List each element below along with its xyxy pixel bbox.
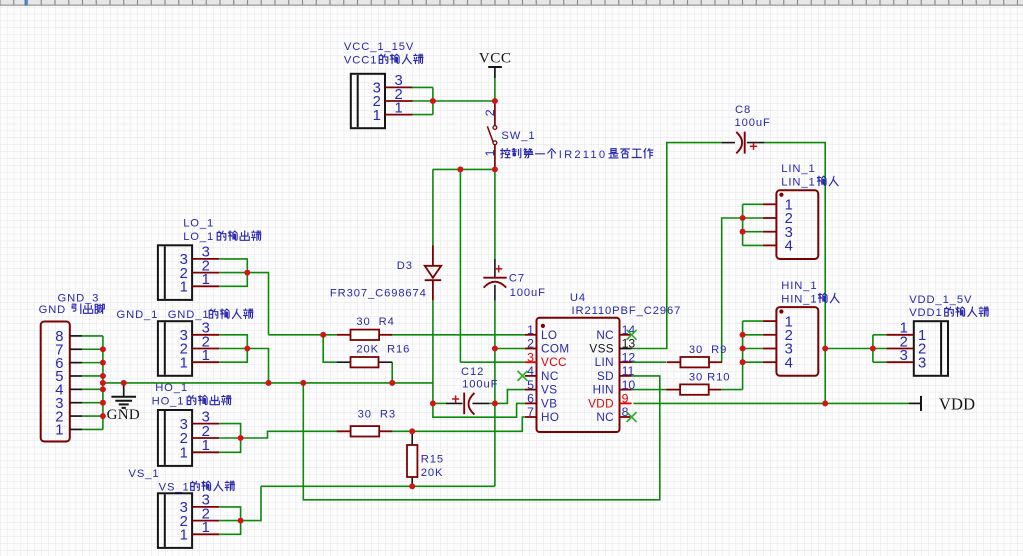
label HIN_1 input: [781, 293, 839, 305]
wire GND_1 pin1 to bus: [220, 349, 248, 363]
junction C12 right: [492, 401, 498, 407]
svg-text:1: 1: [55, 423, 63, 439]
svg-text:LIN: LIN: [595, 356, 614, 369]
svg-text:30 R4: 30 R4: [356, 316, 394, 328]
svg-text:C12: C12: [461, 366, 484, 378]
wire HO_1 pin3 to bus: [220, 424, 241, 438]
svg-text:HO: HO: [541, 411, 559, 424]
junction HO_1 bus: [238, 435, 244, 441]
junction dots layer: [100, 98, 876, 523]
resistor R15 (20K, vertical): [407, 431, 417, 486]
label HO_1 output terminal: [152, 395, 231, 407]
svg-text:3: 3: [900, 348, 908, 364]
wire HO_1 pin1 to bus: [220, 438, 241, 452]
wire R4 row right to U4 LO pin1: [390, 334, 525, 336]
junction R15 bottom at VS net: [409, 483, 415, 489]
junction GND_3 bus: [100, 400, 106, 406]
label VCC1 input terminal: [344, 54, 423, 66]
svg-text:COM: COM: [541, 343, 569, 356]
junction R4 left branch: [320, 332, 326, 338]
op-amp driver U4 IR2110PBF body: [537, 318, 620, 432]
wire LIN_1 pin link: [743, 231, 763, 233]
svg-text:VCC_1_15V: VCC_1_15V: [344, 41, 414, 53]
wire LIN_1 pin link: [743, 203, 763, 205]
switch SW_1: [483, 104, 497, 167]
wire VCC_1 bus vertical: [432, 87, 434, 114]
junction ground rail at GND_3 bus: [100, 380, 106, 386]
U4 left pin 7 HO: [525, 405, 559, 424]
wire C8 right to VDD drop: [764, 143, 825, 404]
svg-text:4: 4: [785, 355, 793, 371]
wire GND_1 pin2 to ground rail: [220, 349, 269, 383]
U4 right pin 14 NC: [596, 323, 635, 342]
junction VDD drop at VDD_1 row: [822, 346, 828, 352]
svg-text:20K: 20K: [421, 467, 444, 479]
svg-text:VDD: VDD: [939, 395, 975, 414]
wire VDD_1 bus vertical: [872, 335, 874, 362]
wire VS_1 pin1 to bus: [220, 521, 241, 535]
svg-text:14: 14: [622, 323, 636, 337]
wire VS_1 pin2 link: [220, 520, 241, 522]
wire VCC_1 pin3 to bus: [411, 86, 433, 88]
svg-text:LO: LO: [541, 329, 557, 342]
U4 left pin 2 COM: [525, 337, 570, 356]
svg-text:7: 7: [527, 405, 534, 419]
svg-text:11: 11: [622, 364, 635, 378]
wire GND_3 pin2 link: [82, 415, 103, 417]
svg-text:1: 1: [202, 348, 210, 364]
svg-text:VB: VB: [541, 397, 557, 410]
junction VCC node: [492, 98, 498, 104]
U4 right pin 11 SD: [597, 364, 635, 383]
resistor R10 (30): [666, 384, 721, 394]
svg-text:1: 1: [180, 528, 188, 544]
junction GND_3 bus: [100, 346, 106, 352]
wire to D3 anode: [432, 169, 434, 245]
svg-text:GND: GND: [39, 304, 67, 316]
power flag VDD: [909, 395, 976, 414]
svg-text:VDD1: VDD1: [909, 307, 942, 319]
svg-text:C8: C8: [735, 104, 751, 116]
svg-text:GND_1: GND_1: [117, 309, 159, 321]
svg-text:2: 2: [527, 337, 534, 351]
svg-text:IR2110: IR2110: [559, 149, 607, 161]
wire U4 VSS pin13 up to C8 left: [632, 143, 722, 349]
wire GND_3 pin5 link: [82, 375, 103, 377]
wire GND_3 bus vertical: [102, 336, 104, 430]
wire GND_3 pin7 link: [82, 348, 103, 350]
wire R4 row left: [269, 334, 337, 336]
wire LO_1 pin1 to bus: [220, 273, 248, 287]
junction ground symbol tap: [121, 380, 127, 386]
wire COM row to U4 pin2: [495, 348, 525, 350]
junction COM node: [492, 346, 498, 352]
svg-text:HIN: HIN: [593, 384, 614, 397]
U4 left pin 1 LO: [525, 323, 558, 342]
wire HIN_1 bus vertical: [742, 321, 744, 390]
wire LO_1 pin2 to R4 row: [220, 273, 269, 335]
wire GND_3 pin6 link: [82, 362, 103, 364]
svg-text:HO_1: HO_1: [155, 382, 188, 394]
junction GND_3 bus: [100, 373, 106, 379]
svg-text:100uF: 100uF: [462, 379, 498, 391]
wire C12 left detour to U4 VB pin6: [433, 403, 525, 417]
wire C12 right down to VS net: [494, 403, 496, 486]
wire VDD_1 pin2 to VDD drop: [825, 348, 886, 350]
svg-text:1: 1: [180, 446, 188, 462]
svg-text:GND: GND: [107, 407, 140, 423]
svg-text:3: 3: [527, 350, 534, 364]
wire R3 right to U4 HO pin7: [391, 417, 525, 431]
svg-text:U4: U4: [570, 292, 586, 304]
svg-text:R15: R15: [421, 453, 444, 465]
wire HO_1 pin2 to R3: [220, 431, 343, 438]
svg-text:VS_1: VS_1: [159, 481, 190, 493]
wire U4 VCC pin3 row: [460, 361, 525, 363]
junction VDD_1 bus: [870, 346, 876, 352]
svg-text:LIN_1: LIN_1: [781, 176, 815, 188]
wire switch output row: [433, 168, 495, 170]
svg-text:NC: NC: [541, 370, 559, 383]
connector LO_1: [158, 245, 220, 300]
svg-text:NC: NC: [596, 411, 614, 424]
wire R9 right up to LIN_1: [722, 218, 743, 362]
svg-text:30 R10: 30 R10: [689, 371, 730, 383]
wire D3 cathode to C12 left: [432, 300, 434, 403]
wire LO_1 pin3 to bus: [220, 259, 248, 273]
svg-text:SW_1: SW_1: [501, 130, 535, 142]
wire R10 right to HIN_1 bus: [722, 389, 743, 391]
svg-text:VS_1: VS_1: [129, 468, 160, 480]
svg-text:100uF: 100uF: [510, 287, 546, 299]
svg-text:9: 9: [622, 392, 629, 406]
svg-text:VDD: VDD: [588, 397, 614, 410]
junction SD return at ground rail: [300, 380, 306, 386]
U4 right pin 8 NC: [596, 405, 631, 424]
svg-text:1: 1: [202, 520, 210, 536]
no-connect X at U4 pin 14: [627, 330, 637, 340]
wire LIN_1 pin link: [743, 244, 763, 246]
label VDD1 input terminal: [909, 307, 988, 319]
svg-text:VCC1: VCC1: [344, 54, 377, 66]
U4 right pin 9 VDD: [588, 392, 631, 411]
svg-text:VDD_1_5V: VDD_1_5V: [909, 294, 972, 306]
wire GND_3 pin1 link: [82, 428, 103, 430]
junction GND_1 bus: [244, 346, 250, 352]
svg-text:4: 4: [527, 364, 534, 378]
svg-text:C7: C7: [509, 273, 525, 285]
svg-text:LIN_1: LIN_1: [781, 163, 815, 175]
capacitor C8 (polarized, horizontal): [722, 132, 765, 154]
svg-text:10: 10: [622, 378, 636, 392]
wire VDD_1 pin1 link: [873, 334, 886, 336]
U4 left pin 5 VS: [525, 378, 558, 397]
wire VCC_1 pin2 to VCC node: [411, 100, 495, 102]
svg-text:IR2110PBF_C2967: IR2110PBF_C2967: [572, 305, 682, 317]
label LIN_1 input: [781, 176, 838, 188]
top ruler: [0, 0, 1023, 6]
svg-text:1: 1: [202, 438, 210, 454]
junction LO_1 bus: [244, 270, 250, 276]
svg-text:2: 2: [483, 109, 497, 116]
junction HIN_1 pin2: [740, 332, 746, 338]
svg-text:30 R3: 30 R3: [358, 409, 396, 421]
wire VS net horizontal: [261, 485, 495, 487]
connector HIN_1 (4-pin): [763, 307, 818, 376]
connector GND_3 (8-pin header): [41, 322, 82, 442]
wire U4 VDD pin9 to VDD flag: [633, 402, 908, 404]
svg-text:LO_1: LO_1: [183, 231, 214, 243]
wire VS_1 pin3 to bus: [220, 507, 241, 521]
svg-text:GND_3: GND_3: [58, 293, 100, 305]
label LO_1 output terminal: [183, 231, 261, 243]
svg-text:1: 1: [180, 355, 188, 371]
svg-text:12: 12: [622, 350, 636, 364]
ground symbol GND: [107, 383, 140, 423]
capacitor C12 (polarized, horizontal): [433, 393, 495, 415]
svg-text:VCC: VCC: [541, 356, 567, 369]
junction HIN_1 pin3: [740, 346, 746, 352]
svg-text:20K R16: 20K R16: [356, 343, 410, 355]
junction R16 at ground rail: [389, 380, 395, 386]
junction GND_1 at ground rail: [266, 380, 272, 386]
svg-text:1: 1: [527, 323, 534, 337]
wire C7 top lead: [494, 169, 496, 258]
wire ground rail: [103, 382, 433, 384]
svg-text:HIN_1: HIN_1: [781, 293, 817, 305]
resistor R16 (20K): [337, 357, 393, 367]
junction switch output branch: [458, 167, 464, 173]
wire U4 HIN pin10 to R10: [632, 389, 667, 391]
svg-text:GND_1: GND_1: [168, 309, 210, 321]
power flag VCC: [479, 49, 512, 101]
U4 left pin 3 VCC: [525, 350, 567, 369]
svg-text:NC: NC: [596, 329, 614, 342]
wire C12 right to U4 VS pin5: [495, 390, 525, 404]
wire VS_1 bus to VS net: [241, 486, 261, 520]
connector GND_1: [158, 321, 220, 376]
svg-text:VCC: VCC: [479, 49, 512, 66]
U4 left pin 4 NC: [525, 364, 559, 383]
wire VCC_1 pin1 to bus: [411, 114, 433, 116]
junction HIN_1 pin4: [740, 359, 746, 365]
diode D3: [425, 245, 442, 300]
wire switch to U4 VCC vertical: [459, 169, 461, 362]
svg-text:HO_1: HO_1: [152, 396, 185, 408]
junction GND_3 bus: [100, 413, 106, 419]
svg-text:4: 4: [785, 239, 793, 255]
label switch note: [501, 149, 653, 161]
wire C7 bottom to COM node: [494, 300, 496, 348]
wire HIN_1 pin link: [743, 361, 763, 363]
svg-text:5: 5: [527, 378, 534, 392]
wire COM node down to C12 right: [494, 349, 496, 404]
svg-text:30 R9: 30 R9: [689, 344, 727, 356]
svg-text:100uF: 100uF: [735, 117, 771, 129]
resistor R4 (30): [337, 330, 392, 340]
wire HIN_1 pin link: [743, 348, 763, 350]
junction GND_3 bus: [100, 360, 106, 366]
label GND lead-out pins: [39, 304, 105, 316]
connector VS_1: [158, 493, 220, 548]
svg-text:VS: VS: [541, 384, 557, 397]
capacitor C7 (polarized, vertical): [483, 259, 506, 301]
wire branch down to R16: [323, 335, 336, 362]
U4 right pin 13 VSS: [589, 337, 635, 356]
wire GND_3 pin8 link: [82, 335, 103, 337]
resistor R9 (30): [667, 357, 722, 367]
wire HIN_1 pin link: [743, 334, 763, 336]
wire U4 LIN pin12 to R9: [632, 361, 666, 363]
wire GND_3 pin3 link: [82, 402, 103, 404]
junction VDD drop at VDD row: [822, 401, 828, 407]
svg-text:LO_1: LO_1: [183, 218, 214, 230]
junction R3-R15 node: [409, 428, 415, 434]
svg-text:1: 1: [373, 108, 381, 124]
junction VS_1 bus: [238, 518, 244, 524]
U4 right pin 10 HIN: [593, 378, 636, 397]
no-connect X at U4 pin 8: [627, 412, 637, 422]
wire U4 SD pin11 return to ground rail: [303, 376, 660, 500]
wire VDD_1 pin3 link: [873, 361, 886, 363]
wire LIN_1 pin link: [743, 217, 763, 219]
wire HIN_1 pin link: [743, 320, 763, 322]
wire R16 right down to ground rail: [391, 362, 393, 383]
svg-text:3: 3: [918, 355, 926, 371]
wire LIN_1 bus vertical: [742, 204, 744, 245]
junction GND_3 bus: [100, 386, 106, 392]
resistor R3 (30): [337, 426, 392, 436]
junction switch output: [492, 167, 498, 173]
svg-text:1: 1: [483, 149, 497, 156]
svg-text:VSS: VSS: [589, 343, 614, 356]
U4 left pin 6 VB: [525, 392, 558, 411]
junction VCC_1 bus: [430, 98, 436, 104]
wire GND_3 pin4 link: [82, 388, 103, 390]
svg-text:1: 1: [180, 280, 188, 296]
wire GND_1 pin3 to bus: [220, 335, 248, 349]
label GND_1 input terminal: [168, 309, 253, 321]
junction C12 left: [430, 401, 436, 407]
junction LIN_1 pin2: [740, 215, 746, 221]
label VS_1 input terminal: [159, 481, 235, 493]
svg-text:1: 1: [395, 100, 403, 116]
svg-text:1: 1: [202, 272, 210, 288]
svg-text:FR307_C698674: FR307_C698674: [330, 287, 427, 299]
U4 right pin 12 LIN: [595, 350, 636, 369]
connector VDD_1 (mirrored): [886, 321, 948, 376]
no-connect X at U4 pin 4: [518, 371, 528, 381]
svg-text:SD: SD: [597, 370, 614, 383]
connector LIN_1 (4-pin): [763, 190, 818, 259]
junction LIN_1 pin3: [740, 229, 746, 235]
svg-text:6: 6: [527, 392, 534, 406]
svg-text:D3: D3: [397, 260, 413, 272]
svg-text:HIN_1: HIN_1: [781, 280, 817, 292]
connector HO_1: [158, 409, 220, 466]
connector VCC_1: [351, 73, 413, 128]
